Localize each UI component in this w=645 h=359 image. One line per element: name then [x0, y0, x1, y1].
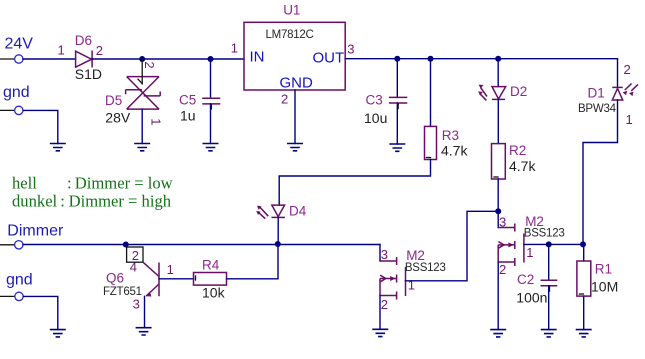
wire R3 to D4 — [279, 160, 430, 206]
voltage regulator U1 — [244, 22, 345, 90]
svg-text:1: 1 — [149, 118, 164, 125]
svg-text:2: 2 — [624, 62, 631, 77]
value 1u — [180, 108, 196, 124]
pin 2 of M2 left — [381, 297, 388, 312]
pin 3 of M2 left — [381, 247, 388, 262]
svg-text:dunkel: dunkel — [12, 192, 58, 211]
wire Q6 emitter to ground — [144, 296, 146, 327]
pin 3 of U1 — [347, 41, 354, 56]
svg-text:D5: D5 — [105, 93, 122, 108]
svg-text:D4: D4 — [289, 204, 307, 219]
svg-text:2: 2 — [281, 91, 288, 106]
wire junction to D2 — [497, 59, 499, 87]
svg-text:R1: R1 — [595, 261, 612, 276]
note hell line — [12, 174, 173, 193]
pin 2 of D6 — [96, 43, 103, 58]
wire Dimmer rail — [23, 244, 380, 246]
wire OUT rail — [345, 58, 617, 60]
svg-text:FZT651: FZT651 — [103, 286, 142, 298]
wire junction to C5 — [210, 59, 212, 98]
wire R2 to M2 junction — [497, 179, 499, 211]
svg-text:hell: hell — [12, 174, 37, 193]
svg-text:D2: D2 — [510, 84, 527, 99]
label D2 — [510, 84, 527, 99]
label Q6 — [106, 271, 124, 286]
svg-text:BSS123: BSS123 — [405, 262, 446, 274]
ground of M2 left — [372, 329, 388, 336]
LED D4 — [256, 205, 285, 219]
svg-text:IN: IN — [250, 49, 265, 66]
pin 4 of Q6 — [130, 260, 137, 275]
value S1D — [75, 66, 102, 82]
svg-text:24V: 24V — [5, 35, 34, 52]
svg-text:R3: R3 — [442, 128, 459, 143]
junction at C3 tap — [394, 56, 400, 62]
wire junction to R1 — [583, 244, 585, 261]
n-channel mosfet M2 left — [380, 257, 406, 300]
diode D6 — [76, 51, 93, 68]
svg-text:3: 3 — [347, 41, 354, 56]
svg-text:C5: C5 — [179, 93, 196, 108]
pin 1 of Q6 — [167, 262, 174, 277]
wire 24V to D6 — [23, 58, 76, 60]
svg-text:C3: C3 — [366, 93, 383, 108]
resistor R1 — [577, 261, 591, 296]
wire junction to R3 — [430, 59, 432, 127]
svg-text:1: 1 — [58, 43, 65, 58]
pin 2 of D5 (rotated) — [142, 61, 157, 68]
port gnd top — [0, 84, 30, 114]
pin 2 of Q6 — [132, 248, 139, 263]
svg-text:3: 3 — [499, 214, 506, 229]
ground of D5 — [134, 144, 150, 151]
svg-text::: : — [60, 192, 65, 211]
wire C5 to ground — [210, 104, 212, 144]
value BPW34 — [578, 103, 617, 115]
svg-text:BSS123: BSS123 — [524, 228, 565, 240]
svg-text:4: 4 — [130, 260, 137, 275]
pin 1 of D5 (rotated) — [149, 118, 164, 125]
junction at C2 tap — [546, 241, 552, 247]
value FZT651 — [103, 286, 142, 298]
wire junction to C3 — [396, 59, 398, 98]
value BSS123 left — [405, 262, 446, 274]
value 100n — [516, 290, 547, 306]
svg-text:10u: 10u — [364, 110, 387, 126]
svg-text::: : — [67, 174, 72, 193]
svg-text:1: 1 — [408, 278, 415, 293]
label C5 — [179, 93, 196, 108]
svg-text:Q6: Q6 — [106, 271, 124, 286]
pin 2 of M2 right — [499, 262, 506, 277]
label U1 — [283, 3, 300, 18]
n-channel mosfet M2 right — [498, 224, 524, 267]
label D6 — [75, 33, 92, 48]
wire rail corner to D1 — [617, 59, 619, 88]
resistor R3 — [425, 126, 437, 159]
junction at C5 tap — [208, 56, 214, 62]
pin 3 of M2 right — [499, 214, 506, 229]
pin 1 of U1 — [231, 40, 238, 55]
ground of gnd top — [50, 144, 66, 151]
wire D5 to ground — [141, 109, 143, 143]
ground of C5 — [203, 144, 219, 151]
svg-text:1u: 1u — [180, 108, 196, 124]
junction at D4 bottom — [275, 241, 281, 247]
wire C3 to ground — [396, 103, 398, 144]
label M2 left — [406, 248, 425, 263]
port Dimmer — [0, 223, 64, 250]
photodiode D1 — [612, 84, 638, 100]
svg-text:Dimmer: Dimmer — [7, 223, 64, 240]
pin 2 of U1 — [281, 91, 288, 106]
svg-text:1: 1 — [167, 262, 174, 277]
label C2 — [517, 272, 534, 287]
wire D6 to U1 IN — [92, 58, 244, 60]
wire gnd bottom to ground — [23, 296, 58, 329]
wire M2 left source to ground — [379, 296, 381, 330]
port gnd bottom — [0, 272, 33, 301]
wire D2 to R2 — [497, 99, 499, 143]
ground of U1 — [287, 144, 303, 151]
wire M2 left gate to junction — [406, 211, 499, 280]
wire U1 GND pin to ground — [294, 90, 296, 144]
svg-text:4.7k: 4.7k — [441, 142, 468, 158]
svg-text:D1: D1 — [588, 86, 605, 101]
svg-text:10k: 10k — [202, 285, 226, 301]
label R3 — [442, 128, 459, 143]
svg-text:2: 2 — [142, 61, 157, 68]
label D4 — [289, 204, 307, 219]
svg-text:2: 2 — [96, 43, 103, 58]
wire junction to D5 — [141, 59, 143, 77]
svg-text:gnd: gnd — [6, 272, 33, 289]
svg-text:100n: 100n — [516, 290, 547, 306]
value 10M — [591, 279, 618, 295]
svg-text:R2: R2 — [509, 143, 526, 158]
pin name IN — [250, 49, 265, 66]
wire C2 to ground — [548, 286, 550, 330]
svg-text:10M: 10M — [591, 279, 618, 295]
wire M2 right source to ground — [497, 262, 499, 330]
wire gnd to ground — [23, 110, 58, 143]
svg-text:1: 1 — [626, 112, 633, 127]
svg-text:Dimmer = low: Dimmer = low — [75, 174, 173, 193]
wire D1 down to junction — [583, 100, 618, 244]
pin 1 of M2 right — [526, 245, 533, 260]
junction at R3 tap — [428, 56, 434, 62]
ground of Q6 — [136, 328, 152, 335]
wire Q6 base to R4 — [159, 278, 194, 280]
zener suppressor D5 — [126, 77, 161, 110]
wire D4 to Dimmer net — [277, 217, 279, 244]
ground of C3 — [389, 144, 405, 151]
capacitor C5 — [202, 98, 220, 109]
transistor Q6 — [127, 247, 159, 296]
capacitor C2 — [541, 280, 558, 291]
junction at R2 and M2 drain — [495, 208, 501, 214]
svg-text:gnd: gnd — [3, 84, 30, 101]
pin 1 of M2 left — [408, 278, 415, 293]
pin 3 of Q6 — [133, 297, 140, 312]
resistor R4 — [194, 273, 227, 286]
label M2 right — [525, 214, 544, 229]
svg-text:3: 3 — [133, 297, 140, 312]
svg-text:D6: D6 — [75, 33, 92, 48]
value 4.7k of R2 — [509, 158, 536, 174]
wire Dimmer net into left M2 drain — [379, 245, 381, 262]
label C3 — [366, 93, 383, 108]
resistor R2 — [492, 144, 506, 179]
pin 2 of D1 — [624, 62, 631, 77]
svg-text:2: 2 — [381, 297, 388, 312]
wire junction to C2 — [548, 244, 550, 280]
junction at D1 and R1 — [580, 241, 586, 247]
LED D2 — [478, 85, 506, 101]
label R2 — [509, 143, 526, 158]
svg-text:BPW34: BPW34 — [578, 103, 617, 115]
ground of M2 right — [490, 330, 506, 337]
label R4 — [202, 257, 220, 272]
svg-text:S1D: S1D — [75, 66, 102, 82]
wire R1 to ground — [583, 296, 585, 330]
value BSS123 right — [524, 228, 565, 240]
port 24V — [0, 35, 33, 63]
svg-text:1: 1 — [526, 245, 533, 260]
svg-text:2: 2 — [499, 262, 506, 277]
wire junction to M2 right drain — [497, 211, 499, 227]
label R1 — [595, 261, 612, 276]
pin 1 of D6 — [58, 43, 65, 58]
svg-text:3: 3 — [381, 247, 388, 262]
pin name OUT — [313, 50, 345, 67]
ground of R1 — [576, 330, 592, 337]
label D1 — [588, 86, 605, 101]
value LM7812C — [266, 29, 314, 41]
svg-text:R4: R4 — [202, 257, 220, 272]
ground of C2 — [541, 330, 557, 337]
value 4.7k of R3 — [441, 142, 468, 158]
value 28V — [105, 110, 131, 126]
svg-text:4.7k: 4.7k — [509, 158, 536, 174]
svg-text:OUT: OUT — [313, 50, 345, 67]
svg-text:LM7812C: LM7812C — [266, 29, 314, 41]
svg-text:28V: 28V — [105, 110, 131, 126]
wire M2 right gate net — [524, 243, 583, 245]
junction at D2 tap — [495, 56, 501, 62]
capacitor C3 — [389, 97, 407, 108]
junction at Q6 collector — [123, 242, 129, 248]
note dunkel line — [12, 192, 172, 211]
wire R4 to Dimmer net — [227, 244, 279, 279]
svg-text:GND: GND — [280, 75, 314, 92]
svg-text:Dimmer = high: Dimmer = high — [69, 192, 172, 211]
pin 1 of D1 — [626, 112, 633, 127]
svg-text:C2: C2 — [517, 272, 534, 287]
pin name GND — [280, 75, 314, 92]
svg-text:1: 1 — [231, 40, 238, 55]
value 10u — [364, 110, 387, 126]
value 10k — [202, 285, 226, 301]
label D5 — [105, 93, 122, 108]
ground of gnd bottom — [50, 330, 66, 337]
junction at D5 tap — [139, 56, 145, 62]
svg-text:U1: U1 — [283, 3, 300, 18]
